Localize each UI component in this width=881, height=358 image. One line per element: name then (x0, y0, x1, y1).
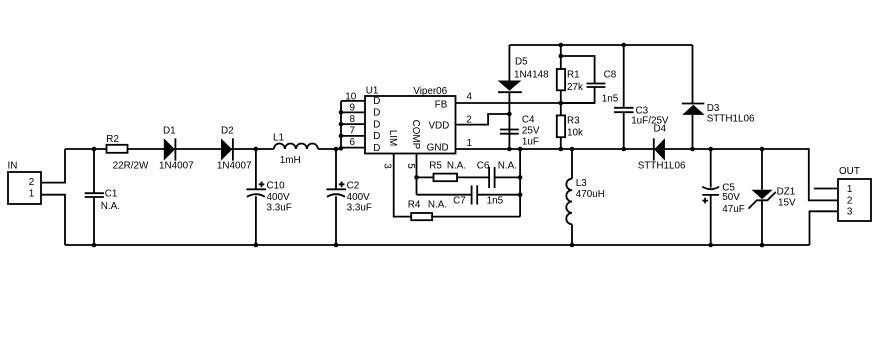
svg-text:U1: U1 (366, 85, 379, 96)
svg-text:10: 10 (345, 92, 356, 103)
svg-text:22R/2W: 22R/2W (113, 161, 149, 172)
capacitor C4 (500, 114, 540, 147)
svg-text:R3: R3 (567, 116, 580, 127)
svg-text:D1: D1 (163, 126, 176, 137)
svg-text:C2: C2 (347, 180, 360, 191)
svg-text:27k: 27k (567, 82, 583, 93)
svg-text:4: 4 (467, 91, 473, 102)
svg-text:STTH1L06: STTH1L06 (707, 113, 755, 124)
resistor R5 (417, 160, 521, 181)
node C1 top (92, 147, 97, 152)
svg-text:3: 3 (382, 163, 393, 169)
diode D4 (638, 123, 686, 171)
node R1 top rail (559, 43, 564, 48)
svg-text:10k: 10k (567, 127, 583, 138)
svg-text:2: 2 (29, 177, 35, 188)
svg-text:1N4148: 1N4148 (514, 69, 549, 80)
capacitor C1 (85, 149, 120, 245)
node D5 anode FB (507, 147, 512, 152)
wire COMP down (416, 154, 418, 195)
svg-text:DZ1: DZ1 (777, 186, 796, 197)
zener DZ1 (749, 149, 796, 245)
node VDD junction (507, 112, 512, 117)
svg-text:1: 1 (29, 189, 35, 200)
svg-text:N.A.: N.A. (498, 160, 517, 171)
node C3 bottom (621, 147, 626, 152)
node bus rail (339, 146, 344, 151)
connector OUT (838, 166, 871, 221)
svg-text:N.A.: N.A. (447, 160, 466, 171)
svg-text:FB: FB (435, 100, 448, 111)
node L3 bottom (570, 243, 575, 248)
svg-text:1N4007: 1N4007 (217, 161, 252, 172)
svg-text:47uF: 47uF (722, 204, 745, 215)
node C7 right (518, 192, 523, 197)
wire LIM to R4 (394, 154, 520, 217)
diode D3 (682, 45, 755, 149)
svg-text:C10: C10 (267, 180, 286, 191)
capacitor C6 (477, 160, 517, 188)
diode D5 (498, 45, 549, 149)
svg-text:2: 2 (847, 196, 853, 207)
svg-text:LIM: LIM (387, 130, 398, 146)
svg-text:C8: C8 (604, 69, 617, 80)
svg-text:COMP: COMP (410, 120, 421, 150)
svg-text:R4: R4 (408, 199, 421, 210)
node DZ1 bottom (760, 243, 765, 248)
svg-text:Viper06: Viper06 (413, 86, 447, 97)
svg-text:GND: GND (427, 143, 449, 154)
connector IN (8, 161, 42, 204)
node D3 bottom rail (690, 147, 695, 152)
svg-text:STTH1L06: STTH1L06 (638, 160, 686, 171)
node C2 bottom (334, 243, 339, 248)
wire AC top rail (65, 148, 341, 150)
node GND rail C6 branch (518, 147, 523, 152)
svg-text:7: 7 (350, 125, 356, 136)
svg-text:D: D (373, 119, 380, 130)
svg-text:15V: 15V (778, 198, 796, 209)
svg-text:5: 5 (405, 163, 416, 169)
wire feedback vertical (519, 149, 521, 217)
svg-text:D: D (373, 143, 380, 154)
node C5 bottom (708, 243, 713, 248)
svg-text:OUT: OUT (839, 166, 860, 177)
svg-text:8: 8 (350, 114, 356, 125)
wire OUT pin3 to bottom rail (810, 211, 838, 245)
node bus pin7 (339, 134, 344, 139)
svg-text:1: 1 (467, 138, 473, 149)
wire bottom rail (65, 244, 810, 246)
capacitor C2 (327, 149, 372, 245)
svg-text:1n5: 1n5 (487, 196, 504, 207)
node R1 C8 tee (559, 54, 564, 59)
svg-text:R5: R5 (429, 160, 442, 171)
svg-text:3.3uF: 3.3uF (267, 203, 292, 214)
node bus pin9 (339, 110, 344, 115)
resistor R1 (557, 45, 583, 103)
svg-text:50V: 50V (722, 192, 740, 203)
wire IN pin2 to AC rail (41, 149, 65, 183)
svg-text:C7: C7 (453, 196, 466, 207)
node C10 bottom (254, 243, 259, 248)
node C6 right (518, 175, 523, 180)
node bus pin8 (339, 122, 344, 127)
wire aux top rail (509, 44, 692, 46)
wire U1 left pin bus (341, 101, 365, 149)
svg-text:25V: 25V (522, 125, 540, 136)
svg-text:D: D (373, 108, 380, 119)
wire OUT pin1 stub (814, 188, 837, 190)
svg-text:D2: D2 (221, 126, 234, 137)
svg-text:L3: L3 (576, 178, 587, 189)
svg-text:C1: C1 (105, 189, 118, 200)
node C2 top (334, 147, 339, 152)
svg-text:400V: 400V (347, 192, 370, 203)
svg-text:1: 1 (847, 184, 853, 195)
node COMP R5 junction (414, 175, 419, 180)
diode D1 (159, 126, 194, 172)
capacitor C10 (246, 149, 291, 245)
svg-text:N.A.: N.A. (101, 201, 120, 212)
svg-text:1N4007: 1N4007 (159, 161, 194, 172)
wire IN pin1 to bottom rail (41, 195, 65, 245)
node R1 bottom FB (559, 101, 564, 106)
svg-text:3.3uF: 3.3uF (347, 203, 372, 214)
node C10 top (254, 147, 259, 152)
capacitor C8 (561, 56, 619, 105)
op-amp U1 Viper06 body (365, 85, 456, 153)
inductor L1 (273, 132, 318, 166)
resistor R3 (557, 103, 583, 149)
node L3 top (570, 147, 575, 152)
wire VDD route (456, 114, 510, 125)
svg-text:9: 9 (350, 103, 356, 114)
svg-text:C3: C3 (636, 105, 649, 116)
node R3 bottom (559, 147, 564, 152)
capacitor C5 (702, 149, 745, 245)
diode D2 (217, 126, 252, 172)
svg-text:C6: C6 (477, 160, 490, 171)
svg-text:D5: D5 (515, 57, 528, 68)
svg-text:VDD: VDD (428, 120, 449, 131)
svg-text:D: D (373, 131, 380, 142)
svg-text:400V: 400V (267, 192, 290, 203)
inductor L3 (566, 149, 605, 245)
wire GND rail (456, 149, 838, 200)
node DZ1 top (760, 147, 765, 152)
svg-text:D: D (373, 96, 380, 107)
svg-text:R1: R1 (567, 69, 580, 80)
svg-text:1uF: 1uF (522, 137, 539, 148)
resistor R4 (408, 199, 447, 220)
svg-text:6: 6 (350, 137, 356, 148)
capacitor C3 (614, 45, 669, 149)
node C5 top (708, 147, 713, 152)
svg-text:470uH: 470uH (576, 189, 605, 200)
svg-text:1mH: 1mH (280, 155, 301, 166)
svg-text:D4: D4 (654, 123, 667, 134)
wire FB line (456, 102, 595, 104)
svg-text:D3: D3 (707, 103, 720, 114)
svg-text:L1: L1 (273, 132, 284, 143)
svg-text:N.A.: N.A. (428, 199, 447, 210)
svg-text:C4: C4 (522, 114, 535, 125)
node C1 bottom (92, 243, 97, 248)
svg-text:R2: R2 (106, 134, 119, 145)
capacitor C7 (417, 185, 521, 206)
svg-text:IN: IN (8, 161, 18, 172)
node C3 top (621, 43, 626, 48)
svg-text:1n5: 1n5 (602, 94, 619, 105)
svg-text:3: 3 (847, 207, 853, 218)
resistor R2 (106, 134, 149, 172)
